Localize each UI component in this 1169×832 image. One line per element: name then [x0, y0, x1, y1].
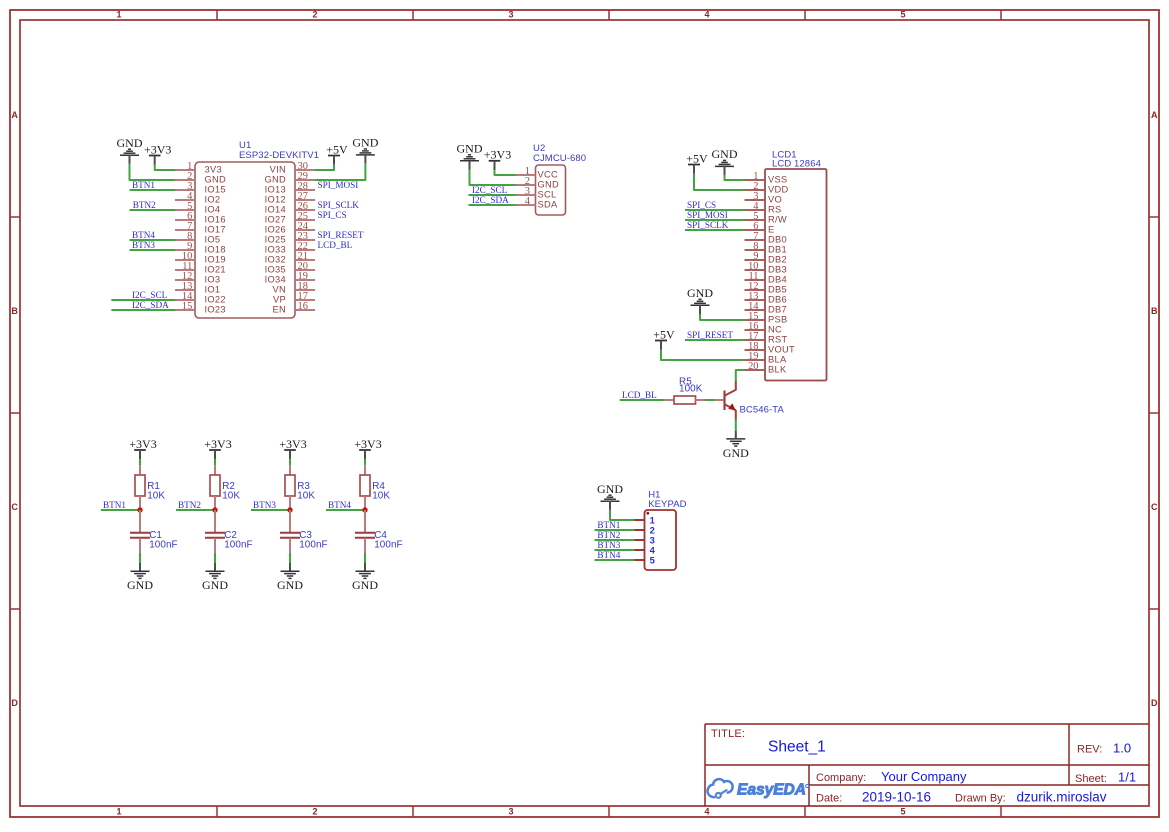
wire Q1 emitter to GND — [735, 420, 737, 431]
svg-text:VP: VP — [273, 295, 286, 305]
svg-text:A: A — [11, 110, 18, 120]
wire GND to U1 pin29 — [315, 164, 365, 180]
svg-text:SPI_SCLK: SPI_SCLK — [318, 200, 360, 210]
svg-text:IO21: IO21 — [205, 265, 226, 275]
svg-text:REV:: REV: — [1077, 744, 1102, 756]
svg-text:KEYPAD: KEYPAD — [648, 499, 686, 510]
wire BTN4 to H1 pin5 — [595, 559, 635, 561]
svg-text:SPI_SCLK: SPI_SCLK — [687, 220, 729, 230]
EasyEDA logo — [708, 779, 809, 799]
svg-text:20: 20 — [748, 361, 758, 372]
IC LCD1 LCD 12864 — [745, 149, 827, 380]
svg-text:I2C_SDA: I2C_SDA — [472, 195, 509, 205]
svg-text:dzurik.miroslav: dzurik.miroslav — [1017, 789, 1107, 804]
wire BTN1 to H1 pin2 — [595, 529, 635, 531]
svg-text:+3V3: +3V3 — [144, 142, 171, 156]
wire I2C_SDA to U1 pin15 — [111, 309, 175, 311]
svg-text:DB0: DB0 — [768, 235, 787, 245]
wire SPI_SCLK to LCD1 pin6 E — [685, 229, 745, 231]
capacitor C3 100nF — [280, 510, 328, 553]
svg-text:RS: RS — [768, 205, 782, 215]
svg-text:3: 3 — [508, 807, 513, 817]
svg-text:BTN2: BTN2 — [133, 200, 156, 210]
svg-text:NC: NC — [768, 325, 782, 335]
svg-text:IO16: IO16 — [205, 215, 226, 225]
svg-text:B: B — [11, 306, 18, 316]
ground (U2 pin2) — [457, 142, 483, 170]
svg-text:BTN1: BTN1 — [132, 180, 155, 190]
svg-text:IO25: IO25 — [265, 235, 286, 245]
svg-text:1: 1 — [650, 516, 655, 526]
wire BTN1 to U1 pin3 — [130, 189, 176, 191]
svg-text:Date:: Date: — [816, 792, 842, 804]
svg-text:DB2: DB2 — [768, 255, 787, 265]
svg-text:IO33: IO33 — [265, 245, 286, 255]
svg-text:5: 5 — [900, 807, 905, 817]
svg-text:SPI_CS: SPI_CS — [687, 200, 716, 210]
wire I2C_SCL to U1 pin14 — [111, 299, 175, 301]
svg-text:EN: EN — [272, 305, 286, 315]
svg-text:BC546-TA: BC546-TA — [740, 404, 785, 415]
svg-text:1: 1 — [116, 807, 121, 817]
svg-text:VOUT: VOUT — [768, 345, 795, 355]
svg-text:GND: GND — [723, 446, 749, 460]
svg-text:2019-10-16: 2019-10-16 — [862, 789, 931, 804]
ground (U1 pin2) — [117, 136, 143, 164]
svg-text:1: 1 — [116, 10, 121, 20]
power +3V3 (U2 pin1) — [484, 148, 511, 171]
svg-text:DB7: DB7 — [768, 305, 787, 315]
wire BTN2 to R2/C2 junction — [176, 509, 215, 511]
IC U2 CJMCU-680 — [516, 143, 587, 215]
wire C2 to GND — [214, 553, 216, 563]
svg-text:SPI_MOSI: SPI_MOSI — [687, 210, 728, 220]
wire BTN1 to R1/C1 junction — [101, 509, 140, 511]
svg-text:IO2: IO2 — [205, 195, 221, 205]
svg-text:SCL: SCL — [538, 190, 557, 200]
svg-text:BLA: BLA — [768, 355, 787, 365]
wire BTN2 to H1 pin3 — [595, 539, 635, 541]
power +3V3 (R2) — [204, 437, 231, 460]
svg-text:VCC: VCC — [538, 170, 559, 180]
svg-text:IO17: IO17 — [205, 225, 226, 235]
svg-text:BTN4: BTN4 — [597, 550, 620, 560]
power +3V3 (U1 pin1) — [144, 142, 171, 165]
capacitor C2 100nF — [205, 510, 253, 553]
wire +5V to U1 pin30 — [315, 165, 334, 170]
svg-text:3: 3 — [508, 10, 513, 20]
resistor R1 10K — [135, 465, 165, 510]
wire LCD_BL to R5 — [620, 399, 665, 401]
power +3V3 (R1) — [129, 437, 156, 460]
svg-text:2: 2 — [312, 10, 317, 20]
wire +3V3 to R2 — [214, 459, 216, 465]
svg-text:GND: GND — [352, 578, 378, 592]
svg-text:2: 2 — [312, 807, 317, 817]
svg-text:IO14: IO14 — [265, 205, 286, 215]
svg-text:IO34: IO34 — [265, 275, 286, 285]
svg-text:DB5: DB5 — [768, 285, 787, 295]
svg-text:Drawn By:: Drawn By: — [955, 792, 1006, 804]
svg-text:IO23: IO23 — [205, 305, 226, 315]
resistor R2 10K — [210, 465, 240, 510]
junction node BTN1 — [137, 507, 142, 512]
resistor R5 100K — [665, 376, 705, 404]
svg-text:I2C_SCL: I2C_SCL — [472, 185, 508, 195]
svg-text:3: 3 — [650, 536, 655, 546]
svg-text:+3V3: +3V3 — [354, 437, 381, 451]
junction node BTN4 — [362, 507, 367, 512]
power +3V3 (R3) — [279, 437, 306, 460]
wire C1 to GND — [139, 553, 141, 563]
connector H1 KEYPAD — [635, 490, 687, 570]
power +5V (LCD1 pin2) — [686, 151, 708, 174]
wire +3V3 to U2 pin1 — [495, 170, 516, 175]
wire SPI_CS to LCD1 pin4 RS — [685, 209, 745, 211]
svg-text:Sheet:: Sheet: — [1075, 773, 1107, 785]
svg-text:IO4: IO4 — [205, 205, 221, 215]
svg-text:BTN3: BTN3 — [597, 540, 620, 550]
svg-text:IO35: IO35 — [265, 265, 286, 275]
junction node BTN3 — [287, 507, 292, 512]
svg-text:100nF: 100nF — [224, 540, 253, 551]
power +5V (LCD1 pin19) — [653, 327, 675, 350]
wire +3V3 to R1 — [139, 459, 141, 465]
svg-text:+3V3: +3V3 — [129, 437, 156, 451]
wire LCD1 pin20 BLK to Q1 collector — [736, 370, 745, 381]
wire BTN3 to H1 pin4 — [595, 549, 635, 551]
wire SPI_RESET to LCD1 pin17 RST — [685, 339, 745, 341]
svg-text:Company:: Company: — [816, 772, 866, 784]
svg-text:GND: GND — [457, 142, 483, 156]
svg-text:GND: GND — [687, 286, 713, 300]
svg-text:GND: GND — [277, 578, 303, 592]
svg-text:DB1: DB1 — [768, 245, 787, 255]
svg-text:4: 4 — [650, 546, 656, 556]
svg-text:BTN3: BTN3 — [253, 500, 276, 510]
svg-text:DB4: DB4 — [768, 275, 787, 285]
svg-text:EasyEDA: EasyEDA — [737, 782, 806, 799]
svg-text:4: 4 — [704, 10, 709, 20]
svg-text:IO27: IO27 — [265, 215, 286, 225]
wire +3V3 to U1 pin1 — [155, 164, 175, 170]
svg-text:IO15: IO15 — [205, 185, 226, 195]
svg-text:100nF: 100nF — [374, 540, 403, 551]
svg-text:DB6: DB6 — [768, 295, 787, 305]
svg-text:SPI_CS: SPI_CS — [318, 210, 347, 220]
resistor R3 10K — [285, 465, 315, 510]
wire BTN4 to R4/C4 junction — [326, 509, 365, 511]
wire GND to U2 pin2 — [470, 170, 516, 186]
svg-text:GND: GND — [712, 147, 738, 161]
svg-text:IO26: IO26 — [265, 225, 286, 235]
svg-text:BTN3: BTN3 — [132, 240, 155, 250]
svg-text:D: D — [1151, 698, 1158, 708]
wire GND to LCD1 pin1 VSS — [725, 175, 745, 180]
svg-text:I2C_SCL: I2C_SCL — [132, 290, 168, 300]
svg-text:IO1: IO1 — [205, 285, 221, 295]
svg-text:IO12: IO12 — [265, 195, 286, 205]
svg-text:RST: RST — [768, 335, 788, 345]
svg-text:VN: VN — [272, 285, 286, 295]
svg-text:16: 16 — [298, 301, 308, 312]
IC U1 ESP32-DEVKITV1 — [175, 140, 319, 318]
svg-text:LCD 12864: LCD 12864 — [772, 158, 821, 169]
svg-text:IO18: IO18 — [205, 245, 226, 255]
wire SPI_MOSI to LCD1 pin5 R/W — [685, 219, 745, 221]
svg-text:+5V: +5V — [326, 142, 348, 156]
svg-text:BTN1: BTN1 — [597, 520, 620, 530]
wire +3V3 to R3 — [289, 459, 291, 465]
svg-text:+3V3: +3V3 — [204, 437, 231, 451]
power +3V3 (R4) — [354, 437, 381, 460]
svg-text:C: C — [1151, 502, 1158, 512]
svg-text:DB3: DB3 — [768, 265, 787, 275]
wire R5 to Q1 base — [705, 399, 715, 401]
resistor R4 10K — [360, 465, 390, 510]
ground (C3) — [277, 563, 303, 592]
svg-text:SPI_MOSI: SPI_MOSI — [318, 180, 359, 190]
svg-text:Your Company: Your Company — [881, 769, 967, 784]
svg-text:VDD: VDD — [768, 185, 789, 195]
svg-text:1/1: 1/1 — [1118, 770, 1136, 785]
wire GND to LCD1 pin15 PSB — [700, 314, 745, 320]
svg-text:GND: GND — [538, 180, 560, 190]
svg-text:GND: GND — [205, 175, 227, 185]
svg-text:VIN: VIN — [270, 165, 286, 175]
svg-text:10K: 10K — [147, 490, 165, 501]
svg-text:B: B — [1151, 306, 1158, 316]
wire C3 to GND — [289, 553, 291, 563]
svg-text:5: 5 — [900, 10, 905, 20]
svg-text:GND: GND — [597, 482, 623, 496]
svg-text:CJMCU-680: CJMCU-680 — [533, 153, 586, 164]
svg-text:LCD_BL: LCD_BL — [622, 390, 657, 400]
svg-text:3V3: 3V3 — [205, 165, 222, 175]
svg-text:Sheet_1: Sheet_1 — [768, 739, 826, 756]
ground (H1 pin1) — [597, 482, 623, 510]
svg-text:IO32: IO32 — [265, 255, 286, 265]
svg-text:100nF: 100nF — [299, 540, 328, 551]
svg-text:+5V: +5V — [653, 327, 675, 341]
svg-text:10K: 10K — [297, 490, 315, 501]
svg-text:A: A — [1151, 110, 1158, 120]
wire I2C_SDA to U2 pin4 — [469, 204, 516, 206]
wire C4 to GND — [364, 553, 366, 563]
svg-text:GND: GND — [264, 175, 286, 185]
svg-text:BTN1: BTN1 — [103, 500, 126, 510]
wire +3V3 to R4 — [364, 459, 366, 465]
svg-text:5: 5 — [650, 556, 655, 566]
svg-text:D: D — [11, 698, 18, 708]
transistor Q1 BC546-TA (NPN) — [715, 381, 785, 420]
svg-text:SPI_RESET: SPI_RESET — [318, 230, 364, 240]
svg-text:IO5: IO5 — [205, 235, 221, 245]
svg-text:100nF: 100nF — [149, 540, 178, 551]
ground (Q1 emitter) — [723, 431, 749, 460]
svg-text:I2C_SDA: I2C_SDA — [132, 300, 169, 310]
svg-text:BTN4: BTN4 — [132, 230, 155, 240]
wire BTN3 to R3/C3 junction — [251, 509, 290, 511]
capacitor C4 100nF — [355, 510, 403, 553]
svg-text:GND: GND — [352, 136, 378, 150]
svg-text:BTN2: BTN2 — [178, 500, 201, 510]
wire BTN3 to U1 pin9 — [130, 249, 176, 251]
svg-text:C: C — [11, 502, 18, 512]
svg-text:BLK: BLK — [768, 365, 787, 375]
svg-text:15: 15 — [182, 301, 192, 312]
svg-text:PSB: PSB — [768, 315, 788, 325]
capacitor C1 100nF — [130, 510, 178, 553]
ground (C1) — [127, 563, 153, 592]
svg-text:GND: GND — [127, 578, 153, 592]
svg-text:1.0: 1.0 — [1113, 741, 1131, 756]
svg-text:BTN2: BTN2 — [597, 530, 620, 540]
svg-text:LCD_BL: LCD_BL — [318, 240, 353, 250]
wire GND to U1 pin2 — [130, 164, 176, 180]
svg-text:4: 4 — [525, 196, 531, 207]
svg-text:IO13: IO13 — [265, 185, 286, 195]
svg-text:+3V3: +3V3 — [484, 148, 511, 162]
svg-text:BTN4: BTN4 — [328, 500, 351, 510]
ground (LCD1 pin1) — [712, 147, 738, 175]
ground (C4) — [352, 563, 378, 592]
svg-text:+3V3: +3V3 — [279, 437, 306, 451]
svg-text:100K: 100K — [679, 384, 703, 395]
svg-text:10K: 10K — [222, 490, 240, 501]
svg-text:ESP32-DEVKITV1: ESP32-DEVKITV1 — [239, 150, 319, 161]
ground (U1 pin29) — [352, 136, 378, 164]
svg-text:GND: GND — [117, 136, 143, 150]
junction node BTN2 — [212, 507, 217, 512]
svg-text:SDA: SDA — [538, 200, 559, 210]
svg-text:GND: GND — [202, 578, 228, 592]
svg-text:+5V: +5V — [686, 151, 708, 165]
wire BTN4 to U1 pin8 — [130, 239, 176, 241]
svg-text:IO22: IO22 — [205, 295, 226, 305]
svg-text:VO: VO — [768, 195, 782, 205]
svg-text:VSS: VSS — [768, 175, 788, 185]
power +5V (U1 pin30) — [326, 142, 348, 165]
svg-text:IO19: IO19 — [205, 255, 226, 265]
svg-text:SPI_RESET: SPI_RESET — [687, 330, 733, 340]
ground (C2) — [202, 563, 228, 592]
svg-text:TITLE:: TITLE: — [711, 728, 745, 740]
svg-text:IO3: IO3 — [205, 275, 221, 285]
wire I2C_SCL to U2 pin3 — [469, 194, 516, 196]
wire +5V to LCD1 pin19 BLA — [661, 350, 745, 360]
wire +5V to LCD1 pin2 VDD — [694, 174, 745, 190]
ground (LCD1 pin15) — [687, 286, 713, 314]
svg-text:2: 2 — [650, 526, 655, 536]
svg-text:10K: 10K — [372, 490, 390, 501]
svg-text:4: 4 — [704, 807, 709, 817]
wire GND to H1 pin1 — [610, 510, 635, 520]
svg-text:E: E — [768, 225, 775, 235]
svg-text:R/W: R/W — [768, 215, 787, 225]
wire BTN2 to U1 pin5 — [130, 209, 176, 211]
